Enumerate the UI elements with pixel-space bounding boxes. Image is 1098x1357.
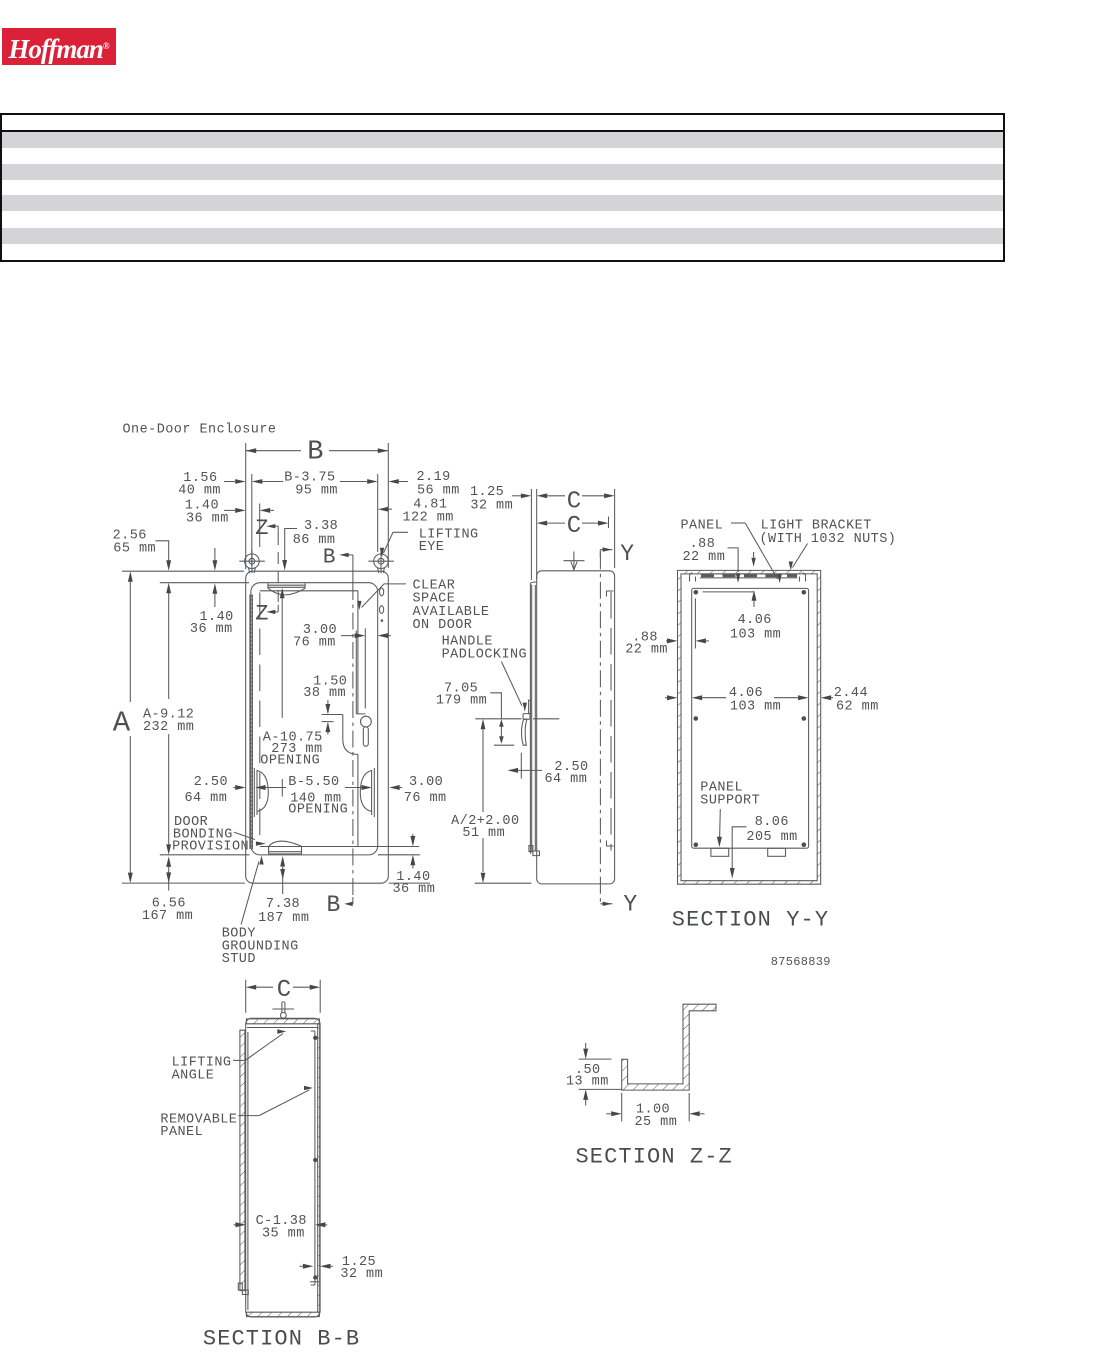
side view: handle edge-on — [522, 700, 531, 745]
dim C-1.38 / 35 mm — [234, 1214, 328, 1241]
dim A-9.12 / 232 mm — [143, 583, 194, 855]
svg-text:OPENING: OPENING — [260, 753, 320, 768]
dim B-3.75 / 95 mm — [252, 470, 378, 566]
svg-text:B-5.50: B-5.50 — [288, 775, 339, 790]
svg-text:C: C — [277, 977, 291, 1004]
svg-text:SUPPORT: SUPPORT — [700, 794, 760, 809]
dim C (upper) — [537, 489, 615, 579]
svg-text:103 mm: 103 mm — [730, 627, 781, 642]
section Z flag (lower) — [255, 602, 278, 627]
side view: lifting eye edge-on — [564, 552, 585, 571]
dim 1.40 / 36 mm (bottom right) — [393, 834, 436, 897]
dim 2.50 / 64 mm (side) — [508, 753, 589, 787]
svg-text:62 mm: 62 mm — [836, 700, 879, 715]
section Y-Y: body wall with hatch — [678, 570, 821, 884]
label REMOVABLE PANEL with leader — [160, 1086, 313, 1140]
dim arrows 1.40 top left pair — [213, 548, 218, 607]
section B-B: removable panel line — [311, 1031, 318, 1285]
section B flag (top) — [323, 547, 353, 584]
dim C (lower, to section Y) — [537, 517, 609, 529]
dim 2.19 / 56 mm — [388, 470, 459, 499]
section Y flag (top) — [600, 541, 634, 567]
mid dim row: 3.00 / 76 mm right — [389, 775, 446, 806]
label HANDLE PADLOCKING with leader — [442, 634, 528, 711]
svg-text:STUD: STUD — [222, 952, 256, 967]
svg-text:(WITH 1032 NUTS): (WITH 1032 NUTS) — [760, 532, 897, 547]
svg-text:OPENING: OPENING — [288, 803, 348, 818]
svg-text:95 mm: 95 mm — [295, 484, 338, 499]
dim A (overall height) — [128, 571, 133, 883]
dim 1.40 / 36 mm (door top inner) — [190, 610, 234, 637]
front view: left louver bracket — [254, 768, 268, 817]
label LIFTING ANGLE with leader — [172, 1029, 287, 1083]
side view: section Y cut line (dash-dot) — [599, 552, 601, 903]
svg-text:PADLOCKING: PADLOCKING — [442, 648, 528, 663]
svg-text:36 mm: 36 mm — [186, 511, 229, 526]
dim 1.25 / 32 mm (door thickness) — [470, 485, 531, 580]
svg-text:C: C — [567, 489, 581, 516]
mid dim row: B-5.50 / 140 mm OPENING — [255, 775, 372, 817]
front view: section B cut line (dash-dot) — [352, 583, 354, 898]
svg-text:13 mm: 13 mm — [566, 1075, 609, 1090]
section B-B: top wall hatch — [246, 1019, 319, 1024]
svg-text:Y: Y — [620, 541, 634, 567]
svg-text:22 mm: 22 mm — [683, 550, 726, 565]
svg-text:22 mm: 22 mm — [625, 643, 668, 658]
label BODY GROUNDING STUD with leader — [222, 856, 299, 968]
side view: door edge-on — [529, 582, 540, 856]
dim 1.40 / 36 mm (hinge) — [185, 499, 274, 548]
section B-B: door edge-on hatched — [238, 1030, 248, 1294]
svg-text:122 mm: 122 mm — [403, 511, 454, 526]
dim 3.00 / 76 mm (handle from edge) — [293, 623, 391, 708]
dim A/2+2.00 / 51 mm — [451, 719, 531, 883]
dim 4.81 / 122 mm — [378, 497, 454, 525]
svg-text:87568839: 87568839 — [771, 955, 831, 969]
svg-text:Z: Z — [255, 602, 268, 627]
dim 6.56 / 167 mm — [142, 856, 193, 924]
front view: left lifting eye — [239, 550, 264, 573]
section B-B: dim C — [246, 980, 321, 1013]
svg-text:64 mm: 64 mm — [185, 791, 228, 806]
svg-text:SECTION Y-Y: SECTION Y-Y — [672, 907, 829, 932]
dim .88 / 22 mm (left) — [625, 598, 709, 657]
front view: right louver bracket — [360, 768, 374, 817]
dim 1.00 / 25 mm — [606, 1093, 704, 1130]
label CLEAR SPACE AVAILABLE ON DOOR with leader — [357, 578, 489, 633]
svg-text:32 mm: 32 mm — [470, 498, 513, 513]
section B-B: rear wall hatch — [318, 1024, 320, 1312]
front view: clear-space dashed line (left) — [259, 593, 261, 846]
svg-text:8.06: 8.06 — [755, 815, 789, 830]
section Z-Z: lifting angle profile with hatch — [622, 1004, 716, 1090]
svg-text:PANEL: PANEL — [160, 1125, 203, 1140]
svg-text:Z: Z — [255, 516, 268, 541]
extension lines top edge / door edge left — [122, 570, 244, 572]
svg-text:65 mm: 65 mm — [113, 542, 156, 557]
section Y-Y: panel supports — [711, 848, 729, 856]
dim .50 / 13 mm — [566, 1043, 622, 1106]
svg-text:51 mm: 51 mm — [462, 826, 505, 841]
svg-text:Y: Y — [623, 891, 637, 917]
svg-text:7.38: 7.38 — [266, 897, 300, 912]
front view: bottom door stop bridge — [269, 841, 302, 855]
svg-text:103 mm: 103 mm — [730, 700, 781, 715]
section B-B: lifting eye mark — [272, 1002, 294, 1018]
side view: body outline — [537, 571, 615, 884]
svg-text:232 mm: 232 mm — [143, 720, 194, 735]
dim 2.56 / 65 mm — [113, 529, 172, 571]
section Y-Y: light bracket strip — [690, 573, 806, 582]
dim 7.38 / 187 mm — [258, 856, 309, 926]
svg-text:179 mm: 179 mm — [436, 694, 487, 709]
dim 4.06 / 103 mm (middle) + 2.44 / 62 mm — [665, 686, 879, 714]
front view: right lifting eye — [368, 550, 394, 573]
front view: door inner panel line — [260, 591, 366, 847]
dim .88 / 22 mm (top) — [683, 537, 756, 583]
svg-text:36 mm: 36 mm — [190, 622, 233, 637]
label PANEL SUPPORT with leader — [700, 781, 760, 848]
label LIGHT BRACKET (WITH 1032 NUTS) with leader — [760, 519, 897, 571]
svg-text:56 mm: 56 mm — [417, 483, 460, 498]
section B flag (bottom) — [327, 892, 353, 918]
svg-text:A: A — [113, 706, 131, 739]
svg-text:One-Door Enclosure: One-Door Enclosure — [123, 423, 277, 438]
front view: hinge strip — [250, 595, 253, 850]
svg-text:205 mm: 205 mm — [746, 830, 797, 845]
dim 1.50 / 38 mm — [303, 674, 347, 734]
dim 7.05 / 179 mm — [436, 682, 559, 746]
svg-text:EYE: EYE — [419, 540, 445, 555]
section Y-Y: panel — [692, 588, 809, 848]
label PANEL with leader — [681, 519, 782, 584]
front view: door outline — [251, 583, 378, 855]
svg-text:36 mm: 36 mm — [393, 882, 436, 897]
svg-text:40 mm: 40 mm — [178, 484, 221, 499]
svg-text:76 mm: 76 mm — [404, 791, 447, 806]
section Y-Y: light bracket line inside panel — [703, 591, 754, 593]
dim 1.25 / 32 mm (panel gap) — [300, 1255, 384, 1282]
section Y flag (bottom) — [600, 891, 637, 917]
front view: enclosure body outline — [246, 571, 389, 883]
up arrow below bridge + extension — [280, 588, 285, 718]
svg-text:32 mm: 32 mm — [340, 1267, 383, 1282]
Hoffman logo — [2, 28, 116, 65]
mid dim row: 2.50 / 64 mm left — [185, 775, 246, 806]
front view: latch holes on door flange — [380, 588, 384, 622]
dim 1.56 / 40 mm — [178, 471, 246, 499]
section Z flag (upper) — [255, 516, 278, 541]
svg-text:B: B — [327, 892, 341, 918]
dim B (top width) — [246, 443, 389, 569]
section Y-Y: panel screws — [694, 590, 807, 847]
section B-B: bottom wall hatch — [246, 1312, 319, 1316]
svg-text:187 mm: 187 mm — [258, 911, 309, 926]
svg-text:25 mm: 25 mm — [635, 1115, 678, 1130]
specification table (empty striped rows) — [0, 113, 1005, 262]
label LIFTING EYE with leader — [380, 527, 479, 557]
svg-text:B: B — [323, 547, 336, 570]
svg-text:167 mm: 167 mm — [142, 909, 193, 924]
svg-text:38 mm: 38 mm — [303, 686, 346, 701]
svg-text:ANGLE: ANGLE — [172, 1068, 215, 1083]
svg-text:64 mm: 64 mm — [545, 772, 588, 787]
svg-text:SECTION Z-Z: SECTION Z-Z — [576, 1145, 733, 1170]
svg-text:SECTION B-B: SECTION B-B — [203, 1326, 360, 1351]
svg-text:C: C — [567, 513, 581, 540]
dim A-10.75 / 273 mm OPENING — [260, 730, 322, 768]
section Z cut dashed line — [277, 533, 279, 605]
svg-text:3.00: 3.00 — [409, 775, 443, 790]
svg-text:PROVISION: PROVISION — [172, 840, 249, 855]
svg-text:B: B — [307, 437, 323, 467]
front view: handle with padlock slot — [361, 716, 372, 746]
svg-text:35 mm: 35 mm — [262, 1226, 305, 1241]
bottom extension lines — [122, 882, 245, 884]
dim 8.06 / 205 mm — [730, 815, 798, 878]
dim 3.38 / 86 mm — [282, 519, 338, 570]
svg-text:2.50: 2.50 — [194, 775, 228, 790]
svg-text:PANEL: PANEL — [681, 519, 724, 534]
section B-B: body outline — [246, 1018, 320, 1317]
front view: top door stop bridge — [268, 583, 305, 595]
side view: removable panel dashed line — [607, 591, 614, 851]
svg-text:4.06: 4.06 — [738, 613, 772, 628]
label DOOR BONDING PROVISION with leader — [172, 815, 266, 855]
svg-text:76 mm: 76 mm — [293, 635, 336, 650]
dim 4.06 / 103 mm (top) — [730, 590, 781, 642]
svg-text:ON DOOR: ON DOOR — [413, 618, 473, 633]
